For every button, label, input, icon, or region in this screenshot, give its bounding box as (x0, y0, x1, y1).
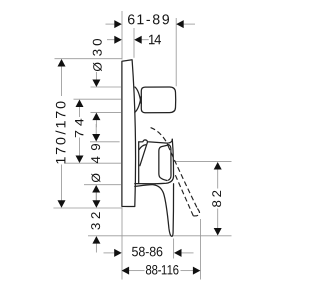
hub inner seam (159, 145, 169, 181)
arrow 61-89 left (114, 20, 122, 28)
wall extension line bottom (121, 207, 123, 280)
hub top edge with lever bump (139, 139, 173, 143)
label 74 (75, 119, 83, 138)
dashed raised lever lower line (174, 173, 193, 216)
lever grip (135, 184, 174, 237)
escutcheon plate (122, 60, 136, 207)
label 82 (212, 191, 221, 207)
arrow 82 bottom (214, 228, 222, 236)
arrow 14 right (134, 36, 142, 44)
arrow 74 top (76, 100, 84, 108)
lever blade diagonal (140, 142, 148, 166)
shut-off knob (141, 87, 175, 113)
arrow dia30 bottom (92, 113, 100, 121)
dim 32 tails (95, 191, 97, 201)
knob-top extension line (91, 86, 121, 88)
lever-bottom extension line (88, 235, 232, 237)
dim 82 line (217, 169, 219, 188)
label dia 49 (91, 144, 100, 182)
dashed raised lever top cap (151, 128, 168, 146)
dim 88-116 tails (129, 270, 145, 272)
knob-bottom extension line (91, 112, 121, 114)
knob neck upper curve (135, 87, 141, 104)
plate-bottom extension line (53, 207, 122, 209)
hub right face (172, 139, 173, 176)
dim 74 line (79, 107, 81, 118)
dim 170/170 line (61, 66, 63, 96)
wall extension line top (121, 11, 123, 60)
plate-top extension line (55, 58, 123, 60)
arrow 74 bottom (76, 156, 84, 164)
plate-front extension line (133, 28, 135, 58)
handle-axis extension line right (174, 161, 232, 163)
arrow 32 bottom (92, 236, 100, 244)
arrow 82 top (214, 162, 222, 170)
dim 58-86 tails (104, 252, 115, 254)
hub-bottom extension line (84, 184, 121, 186)
hub bottom edge (135, 176, 174, 184)
label 14 (149, 35, 161, 44)
handle-axis extension line left (66, 162, 121, 164)
lever back edge (138, 142, 140, 183)
knob-front extension line (175, 18, 177, 86)
dashed raised lever upper line (168, 146, 197, 209)
dim 61-89 tails (106, 23, 115, 25)
arrow 58-86 right (174, 249, 182, 257)
knob neck lower curve (135, 96, 141, 112)
arrow 14 left (114, 36, 122, 44)
lever blade fillet (139, 145, 145, 150)
dashed raised lever tip cap (193, 209, 199, 216)
lever-front extension line (173, 239, 175, 259)
arrow 170/170 bottom (58, 200, 66, 208)
dashed-lever-tip extension line (200, 219, 202, 280)
label 61-89 (128, 14, 169, 24)
dim dia30 tails (95, 72, 97, 80)
hub-top extension line (90, 141, 120, 143)
hub inner seam right side (168, 145, 171, 180)
dim 14 tails (107, 39, 115, 41)
arrow 32 top (92, 200, 100, 208)
arrow 88-116 right (193, 267, 201, 275)
arrow 61-89 right (176, 20, 184, 28)
knob-axis extension line (74, 98, 121, 100)
arrow 88-116 left (122, 267, 130, 275)
label 32 (91, 212, 100, 229)
label 88-116 (146, 265, 179, 275)
label dia 30 (93, 39, 102, 71)
label 58-86 (132, 247, 162, 257)
arrow dia30 top (92, 80, 100, 88)
arrow dia49 top (92, 134, 100, 142)
arrow 170/170 top (58, 59, 66, 67)
label 170/170 (55, 102, 65, 164)
arrow 58-86 left (114, 249, 122, 257)
dim dia49 tails (95, 124, 97, 134)
arrow dia49 bottom (92, 185, 100, 193)
